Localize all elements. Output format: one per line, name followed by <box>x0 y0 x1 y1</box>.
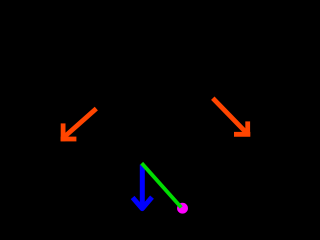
wire shaft <box>213 98 248 134</box>
arrowhead chevron <box>133 197 152 209</box>
gravity arrow (blue, pointing down) <box>133 165 152 209</box>
arrowhead barb horizontal <box>61 137 77 142</box>
arrowhead barb vertical <box>61 123 66 141</box>
force arrow right (orange, pointing down-right) <box>213 98 251 136</box>
arrowhead barb vertical <box>245 121 250 136</box>
bob (magenta dot) <box>177 203 188 214</box>
velocity line (green) <box>142 163 182 207</box>
force arrow left (orange, pointing down-left) <box>61 109 97 142</box>
wire shaft <box>63 109 97 139</box>
wire shaft <box>140 165 145 208</box>
arrowhead barb horizontal <box>234 132 250 137</box>
